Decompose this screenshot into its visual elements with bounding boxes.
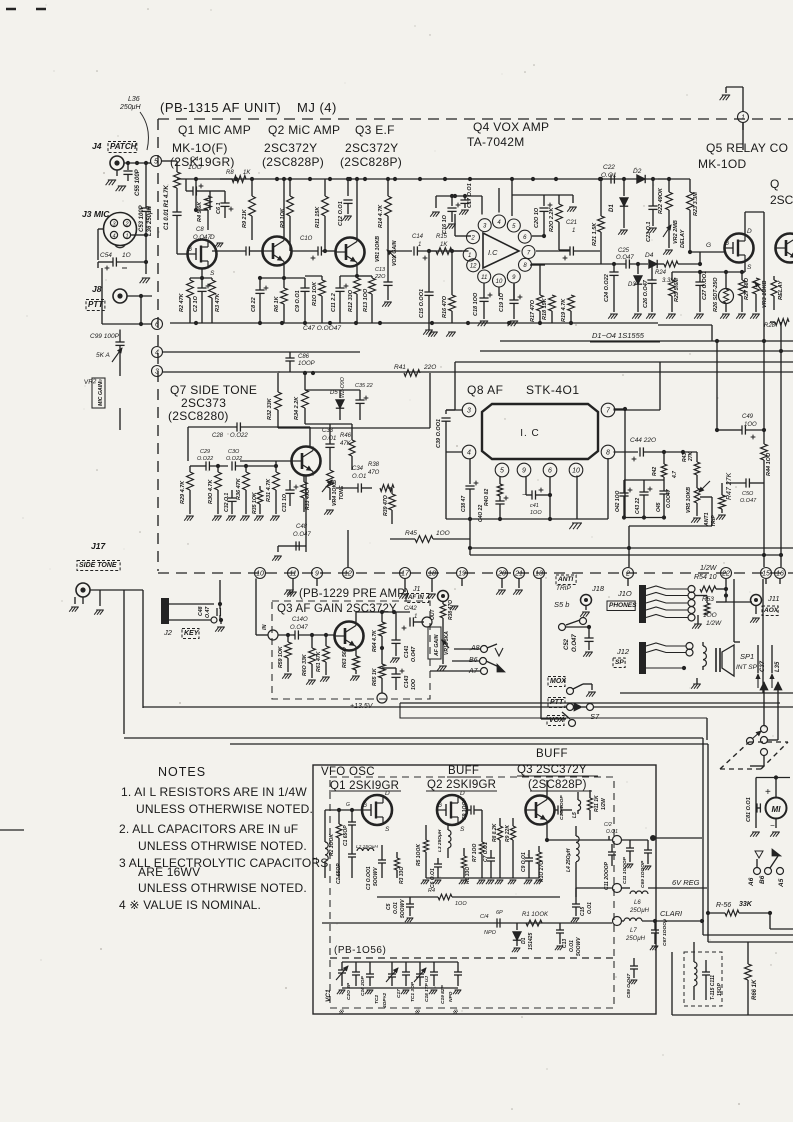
ground preamp top left: [286, 589, 294, 591]
connector B6: [765, 868, 772, 875]
svg-text:R19 4.7K: R19 4.7K: [561, 298, 567, 322]
IC pin 4: [493, 215, 506, 228]
connector J4 PATCH box: [108, 142, 137, 153]
transistor Q6 partial at edge: [776, 234, 793, 263]
svg-text:1: 1: [572, 228, 575, 234]
wire pin9 pin10 pin11 down: [513, 283, 515, 300]
STK-401 pin 4: [462, 445, 476, 459]
svg-text:C69 1OOOP: C69 1OOOP: [640, 860, 646, 888]
svg-text:D: D: [210, 234, 215, 241]
resistor R9 22K: [510, 826, 515, 840]
vertical right column 781: [780, 322, 782, 567]
svg-text:J17: J17: [91, 541, 106, 551]
svg-text:※: ※: [414, 1008, 420, 1016]
resistor R11 15K: [322, 196, 329, 216]
wire terminal4 row: [163, 351, 361, 353]
svg-text:R7 1OO: R7 1OO: [472, 844, 478, 862]
svg-text:R14 4.7K: R14 4.7K: [378, 204, 384, 228]
wire node to terminal 5: [146, 162, 151, 164]
wire pin2 left: [455, 235, 471, 237]
wire C1 to Q1 gate: [177, 253, 188, 255]
wire q3 collector: [546, 780, 548, 796]
svg-text:C33: C33: [322, 428, 334, 434]
wire pin5 up to rail: [511, 179, 513, 216]
VFO dashed box: [330, 777, 614, 1008]
MIC GAIN boxed rotated: [92, 378, 105, 408]
svg-text:C29: C29: [200, 449, 210, 455]
svg-text:2: 2: [625, 571, 630, 578]
svg-text:C11 2.2: C11 2.2: [331, 293, 337, 312]
relay coil RELAY: [771, 280, 777, 296]
transistor Q2 mic amp: [263, 237, 292, 266]
svg-text:R61 47K: R61 47K: [316, 650, 322, 672]
svg-text:C13: C13: [562, 939, 568, 948]
svg-text:ANT1: ANT1: [704, 512, 710, 527]
resistor R61 47K: [325, 635, 327, 646]
svg-text:L7: L7: [630, 928, 637, 934]
capacitor C26 0.047: [651, 264, 653, 280]
resistor R17 470: [537, 295, 544, 311]
svg-text:C67 1OOOμ: C67 1OOOμ: [662, 919, 668, 946]
svg-text:J1: J1: [412, 586, 421, 593]
svg-text:BUFF: BUFF: [448, 765, 479, 777]
svg-text:Q8 AF: Q8 AF: [467, 383, 504, 397]
svg-text:1OO: 1OO: [411, 679, 417, 690]
J12 contacts: [646, 643, 686, 646]
resistor R36 47K: [245, 466, 247, 472]
resistor R19 4.7K: [568, 295, 575, 311]
svg-text:R17 47O: R17 47O: [530, 299, 536, 322]
svg-text:C2O 3P: C2O 3P: [346, 982, 352, 1000]
svg-text:C81 O.O1: C81 O.O1: [746, 797, 752, 822]
capacitor C1 650P: [351, 810, 353, 822]
svg-text:R36 47K: R36 47K: [236, 477, 242, 500]
svg-text:O.O47: O.O47: [740, 498, 757, 504]
wire terminal3 row: [163, 371, 281, 373]
svg-text:R65 1K: R65 1K: [372, 667, 378, 686]
svg-text:R29 4.7K: R29 4.7K: [180, 480, 186, 504]
svg-text:19: 19: [458, 571, 466, 578]
IC pin 8: [519, 258, 532, 271]
svg-text:J8: J8: [92, 284, 102, 294]
svg-text:C17 O.O1: C17 O.O1: [467, 183, 473, 208]
STK-401 pin 3: [462, 403, 476, 417]
svg-text:R-56: R-56: [716, 902, 731, 909]
svg-text:S: S: [210, 270, 215, 277]
svg-text:1OO: 1OO: [436, 530, 450, 537]
capacitor C3 0.001 500WV: [381, 852, 383, 860]
svg-text:1: 1: [741, 115, 745, 122]
svg-text:C89 O.O47: C89 O.O47: [626, 973, 632, 998]
phone jack J12 body: [639, 642, 646, 674]
svg-text:C6 1: C6 1: [216, 202, 222, 214]
Q5 source wire: [744, 263, 746, 273]
svg-text:MOX: MOX: [550, 678, 567, 685]
bus wire y548: [470, 547, 793, 549]
svg-text:3: 3: [155, 369, 159, 376]
svg-text:MK-1O(F): MK-1O(F): [172, 141, 228, 155]
svg-text:R5 1OOK: R5 1OOK: [416, 844, 422, 866]
wire R56 corner: [769, 913, 771, 929]
connector A6: [754, 868, 761, 875]
jack J1: [438, 591, 449, 602]
STK-401 pin 5: [495, 463, 509, 477]
Q1 source resistors R2 C2 R3: [201, 269, 203, 279]
svg-text:C143: C143: [404, 675, 410, 688]
svg-text:C/4: C/4: [480, 914, 489, 920]
svg-text:C11 1OOOP: C11 1OOOP: [622, 856, 628, 884]
svg-text:2SC373: 2SC373: [181, 396, 226, 410]
potentiometer VR5 10KB: [694, 488, 700, 503]
wire pin6: [532, 235, 544, 237]
resistor R66 1K: [745, 964, 752, 980]
svg-text:L35: L35: [775, 661, 781, 672]
svg-text:L4 25OμH: L4 25OμH: [566, 848, 572, 872]
svg-text:2SC372Y: 2SC372Y: [264, 141, 317, 155]
resistor R7 100: [479, 842, 484, 854]
svg-text:4: 4: [467, 450, 471, 457]
resistor R39 470: [391, 488, 393, 494]
svg-text:IN: IN: [262, 623, 268, 630]
AF unit dashed boundary left: [157, 119, 159, 571]
STK-401 pin 10: [569, 463, 583, 477]
svg-text:R8: R8: [226, 170, 234, 176]
wire C54 to ground: [145, 235, 147, 274]
svg-text:C16 2OP: C16 2OP: [360, 975, 366, 996]
resistor R24 3.3M: [664, 261, 678, 267]
svg-text:C26 O.O47: C26 O.O47: [643, 279, 649, 308]
svg-text:C2 1O: C2 1O: [193, 295, 199, 312]
svg-text:R6 1K: R6 1K: [274, 295, 280, 312]
svg-text:UNLESS OTHRWISE NOTED.: UNLESS OTHRWISE NOTED.: [138, 839, 307, 853]
resistor R6 330: [461, 856, 466, 868]
svg-text:21: 21: [514, 571, 523, 578]
capacitor C67 1000P: [654, 921, 656, 930]
svg-text:R4 5.6K: R4 5.6K: [197, 201, 203, 222]
resistor R13 100: [369, 278, 376, 294]
resistor R2 100K vfo: [336, 824, 342, 838]
svg-text:NOTES: NOTES: [158, 765, 206, 779]
wire terminal 10 to preamp IN: [256, 634, 268, 636]
IC pin 2: [467, 231, 480, 244]
svg-text:BUFF: BUFF: [536, 748, 568, 760]
svg-text:1: 1: [468, 253, 471, 259]
svg-text:20: 20: [497, 571, 506, 578]
svg-text:VOX GAIN: VOX GAIN: [392, 240, 398, 266]
svg-text:MK-1OD: MK-1OD: [698, 157, 747, 171]
svg-text:O.O47: O.O47: [411, 646, 417, 662]
svg-text:R11 1K: R11 1K: [594, 795, 600, 812]
svg-text:C8: C8: [196, 227, 204, 233]
terminal 6: [152, 319, 163, 330]
svg-text:CLARI: CLARI: [660, 909, 682, 918]
svg-text:L6: L6: [634, 900, 641, 906]
svg-text:C2 65OP: C2 65OP: [336, 863, 342, 884]
svg-text:C4: C4: [190, 156, 199, 163]
svg-text:(PB-1315 AF UNIT): (PB-1315 AF UNIT): [160, 100, 281, 115]
preamp OUT terminal: [422, 617, 432, 627]
svg-text:22O: 22O: [423, 364, 436, 371]
svg-text:−: −: [770, 821, 775, 830]
ground under C55: [118, 185, 126, 187]
capacitor C7 0.01: [490, 850, 492, 858]
svg-text:R16 47O: R16 47O: [442, 295, 448, 318]
wire pin4 left: [446, 451, 463, 453]
IC pin 9: [507, 270, 520, 283]
svg-text:O.O47: O.O47: [193, 235, 211, 241]
terminal 9: [312, 568, 323, 579]
svg-text:O45: O45: [656, 502, 662, 512]
svg-text:R64 4.7K: R64 4.7K: [372, 629, 378, 652]
svg-text:O.O47: O.O47: [616, 255, 634, 261]
STK-401 pin 7: [601, 403, 615, 417]
L36 callout arc: [140, 112, 148, 150]
svg-text:R63 56O: R63 56O: [342, 647, 348, 668]
PTT boxed: [548, 698, 565, 708]
svg-text:C28: C28: [212, 433, 224, 439]
resistor R44 100: [761, 444, 768, 460]
svg-text:C9 1OOP: C9 1OOP: [462, 798, 468, 820]
svg-text:D5: D5: [330, 390, 338, 396]
resistor R18 15K: [549, 295, 556, 311]
svg-text:O.O1: O.O1: [393, 902, 399, 914]
resistor R4 5.6K: [205, 196, 212, 210]
label SIDE TONE dashed box: [77, 561, 120, 571]
resistor R54 10 zigzag: [700, 586, 716, 592]
wires to bottom right: [757, 645, 759, 673]
svg-text:16: 16: [776, 571, 784, 578]
svg-text:KEY: KEY: [184, 630, 200, 637]
capacitor C15 0.01 vfo: [575, 897, 577, 904]
capacitor C11b 1000P: [629, 840, 631, 848]
svg-text:L36: L36: [128, 96, 140, 103]
svg-text:A6: A6: [748, 877, 755, 887]
ground rail AF top: [170, 322, 658, 324]
svg-text:4.7: 4.7: [672, 471, 678, 479]
svg-text:C31 1O: C31 1O: [282, 494, 288, 512]
svg-text:VR3 1OKB: VR3 1OKB: [762, 280, 768, 308]
svg-text:C1O: C1O: [300, 236, 313, 242]
transistor Q3 EF: [336, 238, 365, 267]
resistor R64 4.7K: [379, 622, 386, 636]
svg-text:C34: C34: [352, 466, 364, 472]
resistor R1 4.7K: [174, 172, 181, 188]
IC pin 11: [478, 270, 491, 283]
vertical right column 764: [763, 341, 765, 444]
svg-text:R13 1OO: R13 1OO: [363, 288, 369, 312]
preamp dashed box: [272, 601, 430, 699]
svg-text:L2 25OμH: L2 25OμH: [356, 844, 378, 850]
AF unit dashed boundary top: [158, 118, 793, 120]
svg-text:3: 3: [483, 224, 487, 230]
svg-text:O.O22: O.O22: [226, 456, 242, 462]
svg-text:C5O: C5O: [742, 491, 754, 497]
svg-text:(2SC828P): (2SC828P): [340, 155, 402, 169]
inductor L7 250uH: [624, 918, 630, 921]
resistor R65 1K: [379, 664, 386, 678]
svg-text:C22: C22: [603, 164, 615, 171]
capacitor C31 10: [289, 480, 291, 490]
svg-text:Q1 MIC AMP: Q1 MIC AMP: [178, 123, 251, 137]
svg-text:D1: D1: [609, 204, 615, 212]
svg-text:T-115 C111: T-115 C111: [710, 975, 716, 1000]
wire pin1 to R15: [462, 250, 469, 252]
svg-text:O.O22: O.O22: [197, 456, 213, 462]
capacitor C27 0.001: [699, 272, 701, 282]
resistor R3 330: [394, 858, 399, 870]
svg-text:C25: C25: [618, 248, 630, 254]
svg-text:S7: S7: [590, 712, 600, 721]
svg-text:R2O 2.2K: R2O 2.2K: [549, 207, 555, 232]
svg-text:ANTI: ANTI: [557, 576, 573, 583]
svg-text:PATCH: PATCH: [110, 142, 137, 151]
wire pin3 up: [481, 196, 483, 215]
ground near terminal 1: [722, 94, 730, 96]
capacitor C45 0.0047: [663, 488, 665, 491]
svg-text:C32 O.1: C32 O.1: [224, 493, 230, 512]
svg-text:5: 5: [154, 159, 158, 166]
Q7 base line: [240, 460, 292, 462]
svg-text:O.O47: O.O47: [293, 532, 311, 538]
svg-text:C8 22: C8 22: [251, 297, 257, 312]
svg-text:VFO OSC: VFO OSC: [321, 766, 375, 778]
svg-text:4: 4: [112, 234, 115, 240]
svg-text:O.O1: O.O1: [322, 436, 336, 442]
svg-text:D: D: [460, 790, 465, 797]
capacitor C9 0.01: [284, 277, 305, 279]
svg-text:VR1 1OKB: VR1 1OKB: [375, 236, 381, 262]
ground Q8: [572, 522, 582, 524]
page registration mark top-left: [6, 8, 16, 11]
page left edge mark: [0, 829, 24, 831]
vertical wire at 541: [540, 579, 542, 720]
svg-text:C/42: C/42: [404, 606, 417, 612]
relay dashed outline: [720, 742, 749, 769]
svg-text:C18 1OO: C18 1OO: [473, 292, 479, 316]
svg-text:15: 15: [762, 571, 770, 578]
svg-text:6: 6: [548, 468, 552, 475]
grounds relay area: [610, 313, 618, 315]
svg-text:9: 9: [512, 275, 516, 281]
svg-text:SP: SP: [615, 659, 624, 666]
svg-text:Q4 VOX AMP: Q4 VOX AMP: [473, 120, 549, 134]
transistor Q1 VFO: [362, 795, 392, 825]
svg-text:G: G: [187, 246, 192, 253]
resistor R30 4.7K: [217, 466, 219, 472]
svg-text:WZ-O9O: WZ-O9O: [340, 377, 346, 398]
svg-text:5OOWV: 5OOWV: [576, 937, 582, 956]
svg-text:C39 O.OO1: C39 O.OO1: [436, 419, 442, 448]
connector J2 KEY box: [182, 629, 200, 639]
svg-text:1/2W: 1/2W: [700, 565, 718, 572]
Q2 collector to rail: [283, 179, 285, 237]
svg-text:C11 2OOOP: C11 2OOOP: [604, 861, 610, 890]
svg-text:11: 11: [481, 275, 487, 281]
svg-text:2SC: 2SC: [770, 193, 793, 207]
svg-text:10: 10: [572, 468, 580, 475]
terminal 3: [152, 366, 163, 377]
svg-text:R22 49OK: R22 49OK: [658, 187, 664, 214]
wire pin7 down right: [614, 408, 626, 410]
svg-text:250μH: 250μH: [119, 104, 142, 111]
svg-text:13: 13: [535, 571, 543, 578]
capacitor C11 2.2: [339, 276, 341, 288]
resistor R33 470: [301, 482, 308, 498]
Q3 emitter network: [356, 267, 358, 277]
bus wire corner y935: [703, 934, 793, 936]
svg-text:R46: R46: [340, 433, 352, 439]
svg-text:R54 10: R54 10: [694, 574, 717, 581]
terminal 13: [534, 568, 545, 579]
svg-text:OUT: OUT: [430, 609, 436, 621]
svg-text:R4: R4: [428, 888, 435, 894]
svg-text:R53: R53: [702, 596, 714, 603]
label ANTI TRIP dashed box: [556, 575, 576, 585]
svg-text:C1O 1OOP: C1O 1OOP: [559, 795, 565, 820]
svg-text:R18 15K: R18 15K: [542, 297, 548, 320]
svg-text:R2 47K: R2 47K: [179, 292, 185, 312]
svg-text:RELAY: RELAY: [778, 280, 784, 300]
svg-text:PHONES: PHONES: [609, 602, 637, 609]
svg-text:1OO: 1OO: [703, 612, 717, 619]
svg-text:C18 17P UJ: C18 17P UJ: [424, 976, 430, 1002]
resistor R31 4.7K: [275, 466, 277, 472]
jack J8: [113, 289, 127, 303]
IC pin 6: [518, 230, 531, 243]
wire pin4 up: [498, 188, 500, 213]
PB-1056 dashed divider: [330, 957, 614, 959]
svg-text:18: 18: [428, 571, 436, 578]
svg-text:R8 8.2K: R8 8.2K: [492, 823, 498, 842]
ground under terminal 11: [292, 579, 294, 591]
wire VR5 to anti trip: [700, 496, 712, 498]
transistor Q3 VFO 2SC372Y: [526, 796, 555, 825]
svg-text:MI: MI: [772, 805, 782, 814]
wire J8 to right: [127, 295, 152, 297]
svg-text:INT SP: INT SP: [736, 664, 758, 671]
svg-text:R9 22K: R9 22K: [505, 825, 511, 842]
svg-text:J4: J4: [92, 141, 102, 151]
relay contact assembly: [693, 683, 701, 685]
STK-401 pin 6: [543, 463, 557, 477]
svg-text:TA-7042M: TA-7042M: [467, 135, 525, 149]
potentiometer VR2 2MB DELAY: [663, 225, 671, 237]
resistor R29 4.7K: [189, 466, 191, 472]
svg-text:TC1 3OP: TC1 3OP: [410, 981, 416, 1002]
svg-text:12: 12: [344, 571, 352, 578]
svg-text:※: ※: [338, 1008, 344, 1016]
wire R45 to rail: [469, 519, 471, 539]
svg-text:8: 8: [523, 263, 527, 269]
resistor R16 470: [451, 251, 453, 295]
Q3 collector to rail: [356, 179, 358, 238]
wire R45 corner down: [469, 539, 471, 555]
wire MI down ground: [775, 819, 777, 829]
capacitor C11 2000P: [611, 844, 613, 852]
svg-text:R41: R41: [394, 364, 406, 371]
svg-text:R27 68O: R27 68O: [744, 277, 750, 300]
svg-text:1/2W: 1/2W: [706, 620, 722, 627]
grounds vfo stage2: [423, 879, 430, 881]
svg-text:C99 100P: C99 100P: [90, 333, 120, 340]
svg-text:R35 1OK: R35 1OK: [252, 491, 258, 514]
svg-text:TC2: TC2: [374, 995, 380, 1004]
STK-401 pin 8: [601, 445, 615, 459]
svg-text:5: 5: [500, 468, 504, 475]
svg-text:R47 27K: R47 27K: [726, 472, 733, 500]
svg-text:R26 SDT-25O: R26 SDT-25O: [713, 277, 719, 312]
AF GAIN boxed rotated: [428, 627, 441, 659]
